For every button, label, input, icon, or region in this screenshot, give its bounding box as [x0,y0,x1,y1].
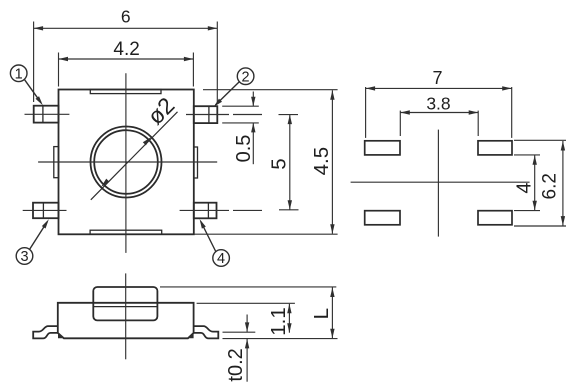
side centerline [125,273,127,359]
label circle 2 [216,68,254,105]
side body outline [58,303,194,339]
dimension 1.1 [288,304,290,333]
svg-text:0.5: 0.5 [233,135,255,163]
pin 2 [194,106,218,123]
dimension 4 [514,155,540,211]
svg-text:4.2: 4.2 [113,39,139,60]
svg-text:t0.2: t0.2 [225,348,247,381]
pad top-right [478,141,512,155]
svg-text:7: 7 [432,68,442,88]
pin row2 centerline left [23,209,67,211]
top notch [90,90,161,94]
phi2 leader diagonal [91,112,178,200]
corner fill right [187,333,194,338]
svg-text:5: 5 [267,158,290,169]
dimension 3.8 [400,111,478,136]
pin row2 centerline right [180,209,229,211]
svg-text:4: 4 [514,182,536,193]
stem inner line [93,306,157,308]
pin row1 centerline right [186,114,229,116]
pad top-left [365,141,400,155]
svg-text:1.1: 1.1 [267,307,290,336]
svg-text:4.5: 4.5 [310,147,333,176]
dimension 4.5 [194,90,338,235]
center cross top view [125,73,127,253]
PAD LAYOUT VIEW [365,141,512,225]
left bump [54,147,59,178]
left lead [33,326,58,338]
button circle inner [94,130,158,194]
svg-text:4: 4 [217,251,225,267]
pad bottom-left [365,211,400,225]
body outline [59,90,194,235]
svg-text:6.2: 6.2 [539,173,560,199]
svg-text:3: 3 [20,249,28,265]
dimension 6.2 [514,140,566,226]
dimension L [331,288,333,339]
dimension 6 [34,22,218,103]
button circle outer [91,127,162,198]
dimension t0.2 [246,315,248,382]
corner fill left [58,333,65,338]
label circle 4 [201,222,230,267]
side extension lines [160,287,338,339]
pin 4 [194,203,217,219]
svg-text:6: 6 [121,7,131,27]
pad view centerlines [351,130,530,237]
dimension 7 [366,87,512,138]
dimension 4.2 [59,53,194,87]
button stem [93,287,157,320]
right lead [194,326,219,338]
dimension 0.5 [222,92,259,165]
svg-text:2: 2 [242,69,250,85]
bottom notch [90,230,162,234]
pin row1 centerline left [25,113,70,115]
pin 3 [33,203,59,219]
svg-text:3.8: 3.8 [426,94,450,114]
svg-text:L: L [310,308,333,319]
right bump [194,147,198,178]
svg-text:1: 1 [15,66,23,82]
SIDE VIEW [33,287,218,338]
pin 1 [34,106,59,123]
label circle 3 [16,222,47,264]
pad bottom-right [478,211,512,225]
dimension 5 [289,115,291,210]
label circle 1 [10,65,41,103]
